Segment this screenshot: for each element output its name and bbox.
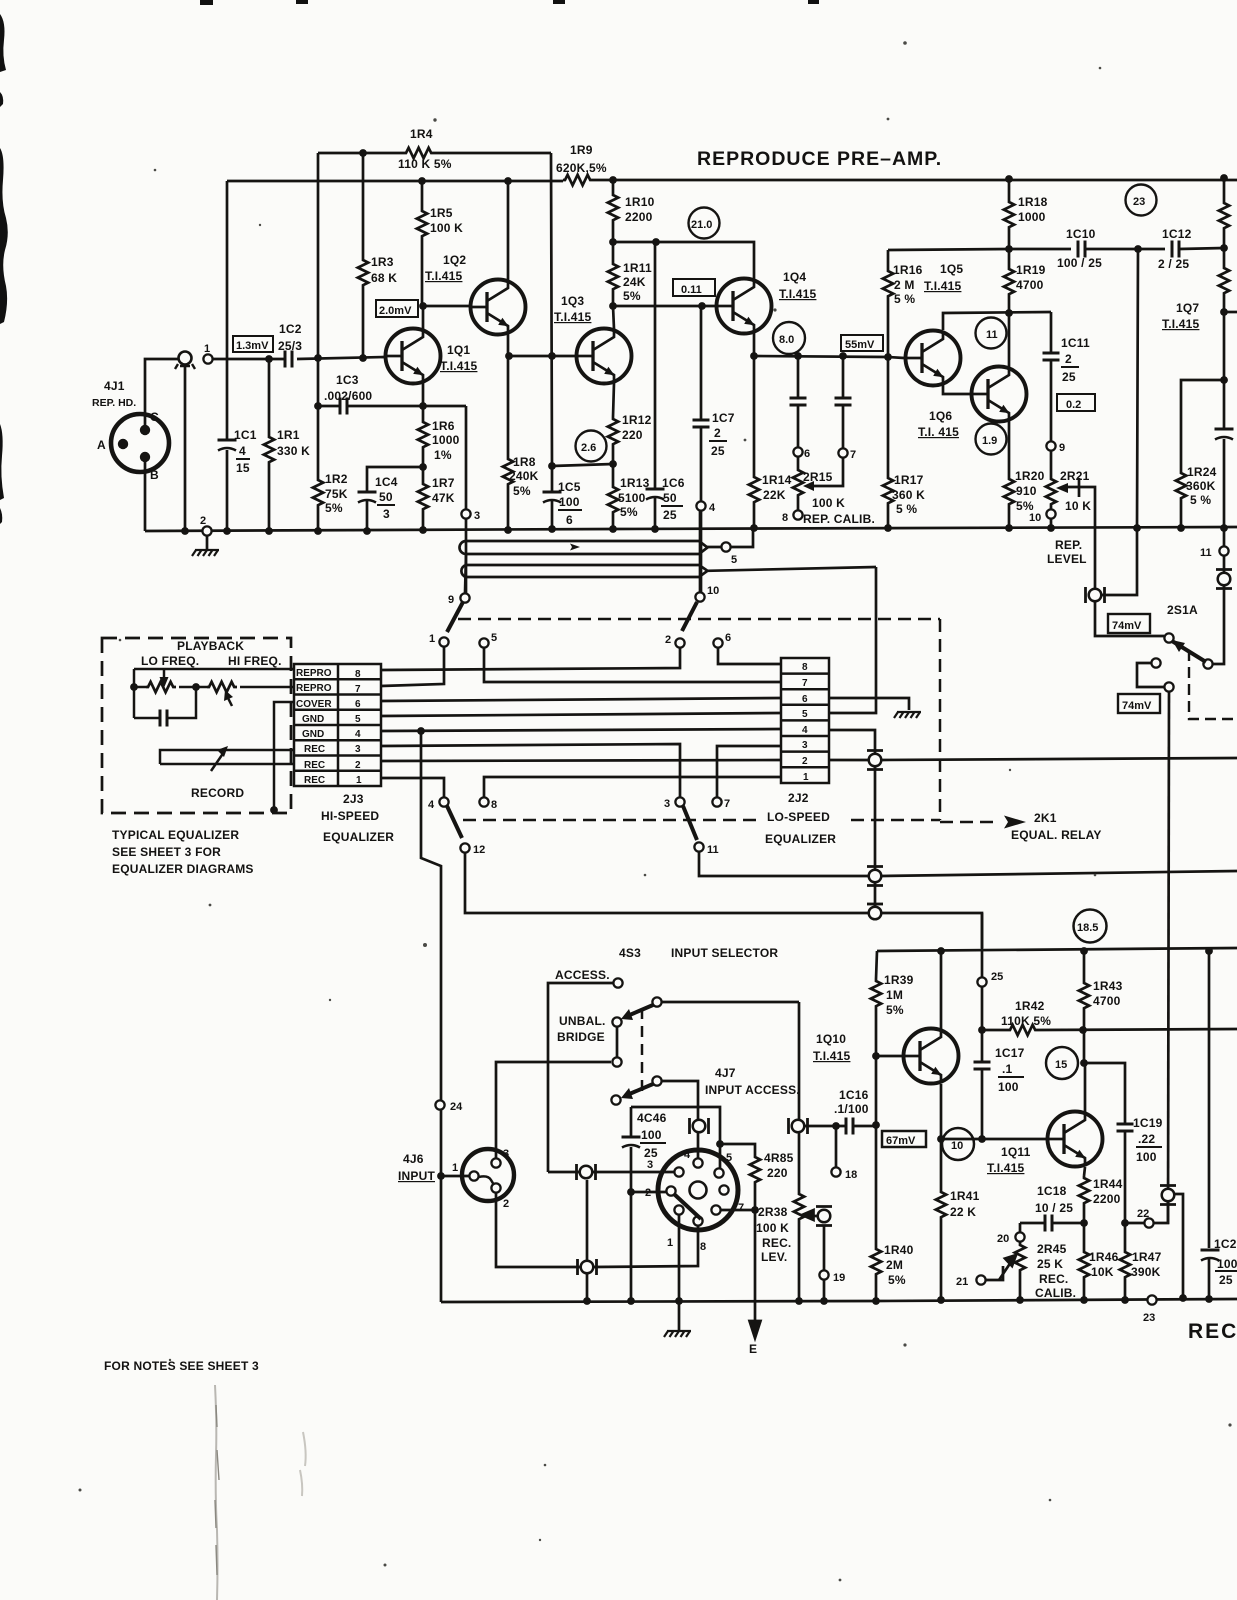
wire: 1C1 column x=227: [226, 181, 229, 531]
svg-text:25: 25: [1062, 370, 1076, 384]
svg-text:1C5: 1C5: [558, 480, 581, 494]
svg-text:4: 4: [239, 444, 246, 458]
svg-text:GND: GND: [302, 714, 324, 725]
wire: COVER line into box: [274, 702, 294, 810]
wire: unbal strap: [616, 1027, 619, 1057]
wire: 1R2 column x=318: [317, 406, 320, 531]
wire: 4J6 pin2 drop: [496, 1192, 580, 1267]
wire: 1C3 feedback line y=406: [318, 405, 466, 408]
wire: 1Q10 emitter to base line: [940, 1084, 943, 1139]
svg-text:1R6: 1R6: [432, 419, 455, 433]
svg-text:1C7: 1C7: [712, 411, 735, 425]
potentiometer 2R15: [793, 468, 803, 498]
terminal 2 eq: [675, 638, 684, 647]
wire: 1R47 column: [1124, 1223, 1127, 1300]
svg-text:23: 23: [1143, 1312, 1155, 1324]
voltage circle 1.9: [976, 424, 1007, 455]
capacitor 1C1: [218, 440, 237, 451]
transistor 1Q1: [386, 329, 441, 384]
voltage box 0.11: [673, 279, 715, 296]
svg-text:7: 7: [355, 684, 361, 695]
transistor 1Q11: [1048, 1112, 1103, 1167]
wire: 74mV long drop: [1168, 692, 1169, 1224]
svg-text:3: 3: [664, 798, 670, 810]
svg-text:HI-SPEED: HI-SPEED: [321, 809, 379, 823]
svg-text:.1/100: .1/100: [834, 1102, 869, 1116]
svg-text:74mV: 74mV: [1122, 700, 1152, 712]
wire: 1R8 column x=508: [507, 356, 510, 530]
svg-text:1R13: 1R13: [620, 476, 650, 490]
resistor 1R11: [608, 262, 618, 292]
wire: 1R19 column x=1009: [1008, 249, 1011, 313]
svg-text:25/3: 25/3: [278, 339, 302, 353]
capacitor 1C7: [693, 420, 710, 427]
svg-text:REPRO: REPRO: [296, 683, 332, 694]
svg-text:100: 100: [559, 495, 580, 509]
svg-text:1: 1: [452, 1162, 458, 1174]
wire: 1Q5 collector riser: [943, 312, 1051, 330]
svg-text:330 K: 330 K: [277, 444, 310, 458]
wire: 4J1 pin B lead: [144, 460, 147, 531]
wire: 1Q4 emitter node: [753, 333, 756, 356]
svg-text:.1: .1: [1002, 1062, 1013, 1076]
wire: 1Q2 emitter to 1Q3 base: [508, 334, 576, 356]
resistor 1R39: [871, 979, 881, 1009]
svg-text:68 K: 68 K: [371, 271, 397, 285]
wire: feedback vertical x=318: [317, 153, 320, 406]
switch 4S3 upper: [612, 978, 661, 1026]
voltage circle 23: [1126, 185, 1157, 216]
svg-text:8: 8: [355, 669, 361, 680]
svg-text:2: 2: [200, 515, 206, 527]
wire: 1R5 column x=422: [421, 181, 424, 306]
svg-text:1R44: 1R44: [1093, 1177, 1123, 1191]
svg-text:T.I.415: T.I.415: [987, 1161, 1025, 1175]
record trimmer arrow: [211, 752, 224, 771]
svg-text:REP. HD.: REP. HD.: [92, 397, 136, 409]
svg-text:1R9: 1R9: [570, 143, 593, 157]
wire: 1Q3 emitter 1R12 1R13 column: [613, 383, 614, 529]
wire: 1Q6 collector: [1008, 313, 1011, 367]
svg-text:22K: 22K: [763, 488, 786, 502]
svg-text:B: B: [150, 468, 159, 482]
wire: head signal line to 1Q1 base: [213, 358, 285, 361]
svg-text:5%: 5%: [888, 1273, 906, 1287]
wire: base line 1Q10 to 1Q11: [941, 1138, 1047, 1141]
terminal 1: [203, 354, 212, 363]
wire: 1R43 column: [1083, 948, 1086, 1063]
wire: 2.0mV node to 1Q2 base: [423, 305, 471, 308]
svg-text:1C10: 1C10: [1066, 227, 1096, 241]
svg-text:10: 10: [707, 585, 719, 597]
svg-text:5%: 5%: [513, 484, 531, 498]
svg-text:1C1: 1C1: [234, 428, 257, 442]
svg-text:21.0: 21.0: [691, 219, 712, 231]
svg-text:0.2: 0.2: [1066, 399, 1081, 411]
wire: pin1 ground drop: [678, 1215, 681, 1330]
terminal 11: [1219, 546, 1228, 555]
capacitor 1C9: [835, 398, 852, 405]
svg-text:12: 12: [473, 844, 485, 856]
wire: E lead: [754, 1210, 757, 1322]
svg-text:1R41: 1R41: [950, 1189, 980, 1203]
svg-text:2R45: 2R45: [1037, 1242, 1067, 1256]
svg-text:1R2: 1R2: [325, 472, 348, 486]
svg-text:22 K: 22 K: [950, 1205, 976, 1219]
svg-text:9: 9: [1059, 442, 1065, 454]
svg-text:3: 3: [503, 1148, 509, 1160]
cable loop 2: [461, 565, 707, 577]
svg-text:REPRO: REPRO: [296, 668, 332, 679]
wire: pivot2 to pin4: [662, 1081, 698, 1158]
tiny arrow inside loop1: [570, 544, 580, 551]
junction dots equalizer: [417, 727, 425, 735]
wire: coupling line y=249: [1009, 248, 1224, 249]
svg-text:1Q10: 1Q10: [816, 1032, 846, 1046]
wire: pin7 line: [720, 1209, 755, 1212]
wire: terminal 10 drop: [699, 511, 702, 592]
svg-text:100: 100: [998, 1080, 1019, 1094]
svg-text:24K: 24K: [623, 275, 646, 289]
svg-text:1Q4: 1Q4: [783, 270, 806, 284]
svg-text:620K,5%: 620K,5%: [556, 161, 607, 175]
wire: terminal 18 drop: [835, 1126, 838, 1167]
wire: 1R3 column x=363: [362, 153, 365, 358]
wire: row3 2J3 to terminal 3: [381, 744, 680, 797]
wire: REC lines into box: [160, 750, 294, 764]
svg-text:1.3mV: 1.3mV: [236, 340, 269, 352]
feedthrough pin2 line: [578, 1259, 597, 1275]
svg-text:LO FREQ.: LO FREQ.: [141, 654, 199, 668]
svg-text:4J6: 4J6: [403, 1152, 424, 1166]
wire: 1Q6 emitter 1R20 column: [1008, 421, 1011, 528]
terminal 8: [793, 510, 802, 519]
ground at 4J1: [206, 536, 209, 549]
svg-text:2: 2: [714, 426, 721, 440]
dashed relay linkage lower and 2K1 arrow: [463, 819, 757, 822]
wire: 1R24 column: [1181, 380, 1224, 528]
capacitor 1C12: [1172, 241, 1179, 258]
transistor 1Q6: [972, 367, 1027, 422]
capacitor 1C19: [1117, 1124, 1134, 1131]
svg-text:GND: GND: [302, 729, 324, 740]
svg-text:REC.: REC.: [762, 1236, 791, 1250]
wire: y=250 line 1R16 to 1R18: [888, 249, 1009, 250]
svg-text:24: 24: [450, 1101, 463, 1113]
svg-text:T.I.415: T.I.415: [554, 310, 592, 324]
svg-text:4C46: 4C46: [637, 1111, 667, 1125]
wire: 2R15 wiper from terminal 7: [808, 458, 843, 486]
wire: terminal 20 stub: [1019, 1223, 1022, 1232]
switch blade 3-11: [683, 806, 697, 840]
resistor 1R24: [1176, 471, 1186, 501]
svg-text:1: 1: [204, 343, 210, 355]
terminal 19: [819, 1270, 828, 1279]
svg-text:REP. CALIB.: REP. CALIB.: [803, 512, 875, 526]
svg-text:5 %: 5 %: [894, 292, 915, 306]
resistor 1R16: [883, 269, 893, 299]
svg-text:2: 2: [355, 760, 361, 771]
svg-text:1Q7: 1Q7: [1176, 301, 1199, 315]
wire: 1Q3 collector: [613, 306, 614, 329]
wire: ACCESS switch pivot line: [662, 1001, 799, 1004]
svg-text:50: 50: [663, 491, 677, 505]
svg-text:6: 6: [725, 632, 731, 644]
svg-text:REC: REC: [304, 775, 325, 786]
switch blade 9-1: [447, 602, 463, 632]
resistor 1R3: [358, 258, 368, 288]
dashed 2S1A linkage: [1189, 650, 1237, 719]
wire: 2R21 column terminal 9 to 10: [1050, 451, 1053, 528]
svg-text:25: 25: [1219, 1273, 1233, 1287]
terminal 3 preamp: [461, 509, 470, 518]
resistor 1R40: [871, 1247, 881, 1277]
resistor 1R19: [1004, 267, 1014, 297]
svg-text:55mV: 55mV: [845, 339, 875, 351]
svg-text:240K: 240K: [509, 469, 539, 483]
resistor 1R12: [608, 417, 618, 447]
junction dots playback: [130, 683, 138, 691]
terminal 6: [793, 447, 802, 456]
wire: 1Q5 emitter to 1Q6 base: [943, 385, 971, 394]
scan edge artifacts left: [0, 0, 819, 524]
wire: rec line right of feedthrough y=760: [882, 758, 1237, 760]
svg-text:REP.: REP.: [1055, 538, 1082, 552]
svg-text:2200: 2200: [1093, 1192, 1121, 1206]
svg-text:1R43: 1R43: [1093, 979, 1123, 993]
junction dots input section: [437, 947, 1213, 1305]
svg-text:FOR NOTES SEE SHEET 3: FOR NOTES SEE SHEET 3: [104, 1359, 259, 1373]
capacitor 1C11: [1043, 353, 1060, 360]
svg-text:100 K: 100 K: [430, 221, 463, 235]
svg-text:1C19: 1C19: [1133, 1116, 1163, 1130]
svg-text:6: 6: [802, 694, 808, 705]
resistor 1R7: [418, 482, 428, 512]
wire: 1R14 column x=754: [753, 356, 756, 528]
svg-text:5 %: 5 %: [1190, 493, 1211, 507]
wire: stub right of x=1224 at y=312: [1224, 311, 1237, 314]
wire: chassis feedthrough chain: [874, 767, 877, 906]
dashed typical equalizer box: [102, 638, 291, 813]
potentiometer playback LO: [146, 682, 176, 692]
svg-text:1R20: 1R20: [1015, 469, 1045, 483]
wire: terminal 6 to 2J2 row8: [718, 648, 781, 664]
wire: pin3 4J7 line: [593, 1171, 674, 1174]
svg-text:COVER: COVER: [296, 699, 332, 710]
svg-text:1R1: 1R1: [277, 428, 300, 442]
wire: 1C6 column x=655: [654, 242, 657, 529]
svg-text:REC: REC: [304, 760, 325, 771]
svg-text:2M: 2M: [886, 1258, 903, 1272]
terminal 1 eq: [439, 637, 448, 646]
terminal 5 preamp: [721, 542, 730, 551]
wire: row5 hi to lo: [381, 713, 781, 716]
voltage circle 11: [976, 318, 1007, 349]
wire: REP LEVEL drop x=1095: [1094, 488, 1097, 588]
capacitor 1C4: [358, 492, 377, 503]
svg-text:110 K 5%: 110 K 5%: [398, 157, 452, 171]
svg-text:220: 220: [767, 1166, 788, 1180]
resistor 1R1: [264, 435, 274, 465]
svg-text:220: 220: [622, 428, 643, 442]
wire: ACCESS wire: [548, 983, 613, 1172]
resistor 1R46: [1079, 1250, 1089, 1280]
wire: playback cap line: [134, 687, 196, 718]
svg-text:1R5: 1R5: [430, 206, 453, 220]
svg-text:25: 25: [644, 1146, 658, 1160]
wire: 1R39 column: [876, 951, 877, 1125]
svg-text:5%: 5%: [325, 501, 343, 515]
svg-text:CALIB.: CALIB.: [1035, 1286, 1076, 1300]
wire: pin8 riser: [593, 1226, 698, 1267]
potentiometer playback HI: [207, 682, 237, 692]
svg-text:INPUT SELECTOR: INPUT SELECTOR: [671, 946, 778, 960]
wire: 1Q4 base line y=306: [613, 305, 716, 308]
svg-text:3: 3: [474, 510, 480, 522]
feedthrough access line: [577, 1164, 596, 1180]
svg-text:10 K: 10 K: [1065, 499, 1091, 513]
svg-text:8.0: 8.0: [779, 334, 794, 346]
faint fold crease bottom left: [215, 1385, 306, 1600]
feedthrough 74mV line: [1160, 1186, 1176, 1205]
transistor 1Q10: [904, 1029, 959, 1084]
svg-text:10: 10: [1029, 512, 1041, 524]
switch 4S3 lower: [611, 1057, 661, 1104]
svg-text:360 K: 360 K: [892, 488, 925, 502]
svg-text:4: 4: [684, 1149, 691, 1161]
svg-text:2R38: 2R38: [758, 1205, 788, 1219]
transistor 1Q2: [471, 280, 526, 335]
wire: 1C16 line: [798, 1125, 876, 1128]
wire: chassis chain x=587: [586, 1180, 589, 1301]
svg-text:2.6: 2.6: [581, 442, 596, 454]
svg-text:3: 3: [802, 740, 808, 751]
wire: row7 2J3 to terminal 1: [381, 647, 444, 686]
strap contacts below 2S1A: [1137, 658, 1174, 691]
svg-text:1R40: 1R40: [884, 1243, 914, 1257]
terminal 2: [202, 526, 211, 535]
voltage box 55mV: [841, 335, 883, 351]
voltage circle 18.5: [1074, 910, 1107, 943]
svg-text:11: 11: [986, 329, 998, 341]
svg-text:6: 6: [355, 699, 361, 710]
ground at 4J7 pin1: [664, 1331, 691, 1337]
voltage circle 15: [1046, 1047, 1078, 1079]
svg-text:18: 18: [845, 1169, 857, 1181]
resistor 4R85: [750, 1155, 760, 1185]
capacitor 4C46: [622, 1137, 641, 1148]
ground at 2J2 row6: [894, 712, 921, 718]
svg-text:ACCESS.: ACCESS.: [555, 968, 610, 982]
svg-text:T.I.415: T.I.415: [425, 269, 463, 283]
svg-text:1Q1: 1Q1: [447, 343, 470, 357]
svg-text:1Q3: 1Q3: [561, 294, 584, 308]
wire: shield feedthrough drop x=185: [184, 365, 187, 531]
wire: 4C46 to pin5 top link: [631, 1107, 720, 1169]
cable loop 1: [460, 541, 708, 554]
wire: row8 2J3 to terminal 2: [381, 648, 680, 670]
svg-text:19: 19: [833, 1272, 845, 1284]
svg-text:5%: 5%: [623, 289, 641, 303]
wire: 2J2 row4 stub to chassis feedthroughs: [829, 730, 875, 753]
connector 4J6: [398, 1148, 514, 1210]
wire: loop2 to chassis column: [708, 567, 877, 571]
svg-text:REC.: REC.: [1039, 1272, 1068, 1286]
svg-text:11: 11: [707, 844, 719, 856]
wire: 1C9 column x=843: [842, 356, 845, 448]
svg-text:1R7: 1R7: [432, 476, 455, 490]
resistor 1R41: [936, 1190, 946, 1220]
wire: 1R40 column: [875, 1125, 878, 1300]
potentiometer 2R45: [1019, 1242, 1022, 1300]
wire: ground bus rail: [145, 527, 1237, 531]
resistor 1R10: [608, 193, 618, 223]
resistor 1R9: [563, 175, 593, 185]
resistor 1R18: [1004, 200, 1014, 230]
svg-text:1R3: 1R3: [371, 255, 394, 269]
svg-text:EQUALIZER DIAGRAMS: EQUALIZER DIAGRAMS: [112, 862, 254, 876]
junction dots preamp: [181, 149, 1228, 535]
svg-text:5: 5: [355, 714, 361, 725]
terminal 25: [977, 977, 986, 986]
terminal 12 eq: [460, 843, 469, 852]
terminal 9 eq: [460, 593, 469, 602]
capacitor 1C2: [285, 351, 292, 368]
resistor 1R20: [1004, 477, 1014, 507]
svg-text:INPUT: INPUT: [398, 1169, 435, 1183]
svg-text:0.11: 0.11: [681, 284, 702, 296]
svg-text:100: 100: [1136, 1150, 1157, 1164]
svg-text:2R15: 2R15: [803, 470, 833, 484]
svg-text:UNBAL.: UNBAL.: [559, 1014, 606, 1028]
wire: terminal 12 to record feedthrough: [465, 853, 868, 913]
svg-text:2: 2: [665, 634, 671, 646]
svg-text:1R4: 1R4: [410, 127, 433, 141]
svg-text:A: A: [97, 438, 106, 452]
wire: 1Q10 base: [876, 1055, 903, 1058]
svg-text:7: 7: [738, 1202, 744, 1214]
svg-text:4S3: 4S3: [619, 946, 641, 960]
svg-text:15: 15: [1055, 1059, 1067, 1071]
svg-text:1: 1: [356, 775, 362, 786]
svg-text:22: 22: [1137, 1208, 1149, 1220]
capacitor 1C5: [543, 492, 562, 503]
svg-text:75K: 75K: [325, 487, 348, 501]
svg-text:10 / 25: 10 / 25: [1035, 1201, 1073, 1215]
voltage box 1.3mV: [233, 336, 273, 352]
wire: 1C7 column x=701: [700, 306, 703, 592]
svg-text:25: 25: [991, 971, 1003, 983]
wire: 1C20 column: [1208, 948, 1211, 1299]
svg-text:1.9: 1.9: [982, 435, 997, 447]
svg-text:7: 7: [802, 678, 808, 689]
wire: 1R4/1C5 column x=552: [551, 153, 552, 529]
voltage box 74mV lower: [1118, 694, 1160, 713]
wire: collector node line to 1C19: [1084, 1063, 1125, 1223]
capacitor 1C18: [1045, 1215, 1052, 1232]
connector table 2J2: [781, 658, 829, 783]
capacitor 1C3: [340, 398, 347, 415]
wire: 4S3 top rail: [877, 948, 1237, 951]
wire: 2J2 row1 to terminal 8: [484, 777, 781, 797]
svg-text:5: 5: [491, 632, 497, 644]
svg-text:3: 3: [383, 507, 390, 521]
svg-text:10K: 10K: [1091, 1265, 1114, 1279]
wire: feedthrough row2 stub: [829, 759, 868, 762]
svg-text:LEVEL: LEVEL: [1047, 552, 1087, 566]
wire: 2R38 wiper feedthrough: [809, 1215, 818, 1218]
wire: 1C18 line y=1223: [1020, 1194, 1183, 1298]
